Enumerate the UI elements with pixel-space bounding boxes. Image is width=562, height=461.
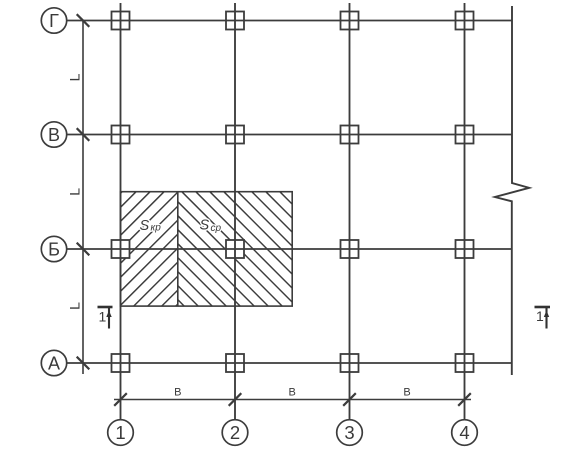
axis line column 4 [464, 3, 466, 420]
svg-text:В: В [289, 387, 296, 399]
svg-text:L: L [67, 188, 83, 196]
column square В-1 [112, 126, 130, 144]
svg-text:1: 1 [99, 309, 107, 325]
axis line column 3 [349, 3, 351, 420]
dimension tick at column 4 [458, 393, 471, 406]
column square В-3 [341, 126, 359, 144]
svg-text:кр: кр [151, 223, 162, 234]
dimension tick at row Г [77, 14, 90, 27]
axis line row Г [67, 20, 512, 22]
dimension label L (span 3) [67, 302, 83, 310]
axis line column 2 [234, 3, 236, 420]
dimension tick at row А [77, 357, 90, 370]
hatch lines Sкр (left area, "/" direction) [121, 192, 178, 306]
svg-text:1: 1 [536, 308, 544, 324]
dimension label L (span 2) [67, 188, 83, 196]
left dimension line [82, 21, 84, 375]
column square Г-1 [112, 12, 130, 30]
axis line row А [67, 362, 512, 364]
column square А-4 [456, 354, 474, 372]
column square Г-4 [456, 12, 474, 30]
column square А-1 [112, 354, 130, 372]
dimension label L (span 1) [67, 73, 83, 81]
dimension label В (bay 2-3) [289, 387, 296, 399]
axis circle 1 [108, 420, 134, 446]
svg-text:4: 4 [459, 422, 469, 443]
axis circle 4 [452, 420, 478, 446]
column square Г-2 [226, 12, 244, 30]
axis circle В [41, 122, 66, 147]
svg-text:В: В [174, 387, 181, 399]
section mark 1 (left): cut line bar [98, 306, 113, 309]
section mark 1 (right): label 1 [536, 308, 544, 324]
section mark 1 (right): arrow shaft [545, 308, 547, 329]
divider line between load areas [177, 192, 179, 306]
bottom dimension line [114, 399, 471, 401]
dimension tick at column 3 [343, 393, 356, 406]
axis line column 1 [120, 3, 122, 420]
svg-text:L: L [67, 302, 83, 310]
dimension tick at column 2 [229, 393, 242, 406]
svg-text:S: S [140, 218, 150, 234]
axis circle А [41, 350, 66, 375]
svg-text:В: В [403, 387, 410, 399]
axis circle Б [41, 236, 66, 261]
svg-text:2: 2 [230, 422, 240, 443]
column square Г-3 [341, 12, 359, 30]
svg-text:L: L [67, 73, 83, 81]
dimension tick at column 1 [114, 393, 127, 406]
column square А-3 [341, 354, 359, 372]
section mark 1 (left): arrow shaft [108, 308, 110, 329]
column square В-2 [226, 126, 244, 144]
hatch lines Sср (right area, "\" direction) [178, 192, 292, 306]
svg-text:В: В [48, 125, 60, 145]
svg-text:S: S [200, 218, 210, 234]
section mark 1 (right): arrowhead [544, 311, 549, 318]
svg-text:Б: Б [48, 239, 60, 259]
svg-text:Г: Г [49, 11, 59, 31]
label Sкр [140, 218, 162, 234]
axis circle 3 [337, 420, 363, 446]
dimension label В (bay 3-4) [403, 387, 410, 399]
svg-text:А: А [48, 353, 60, 373]
column square Б-2 [226, 240, 244, 258]
column square Б-4 [456, 240, 474, 258]
axis circle Г [41, 8, 66, 33]
column square А-2 [226, 354, 244, 372]
column square Б-1 [112, 240, 130, 258]
svg-text:1: 1 [115, 422, 125, 443]
section mark 1 (left): label 1 [99, 309, 107, 325]
column square В-4 [456, 126, 474, 144]
building edge line with break (zigzag) [495, 6, 529, 375]
column square Б-3 [341, 240, 359, 258]
svg-text:3: 3 [344, 422, 354, 443]
section mark 1 (left): arrowhead [106, 311, 111, 318]
axis line row Б [67, 248, 512, 250]
svg-text:ср: ср [211, 223, 222, 234]
section mark 1 (right): cut line bar [535, 306, 551, 309]
dimension tick at row Б [77, 243, 90, 256]
axis circle 2 [222, 420, 248, 446]
label Sср [200, 218, 222, 235]
dimension tick at row В [77, 128, 90, 141]
dimension label В (bay 1-2) [174, 387, 181, 399]
load area outline (hatched rectangle) [121, 192, 293, 306]
axis line row В [67, 134, 512, 136]
